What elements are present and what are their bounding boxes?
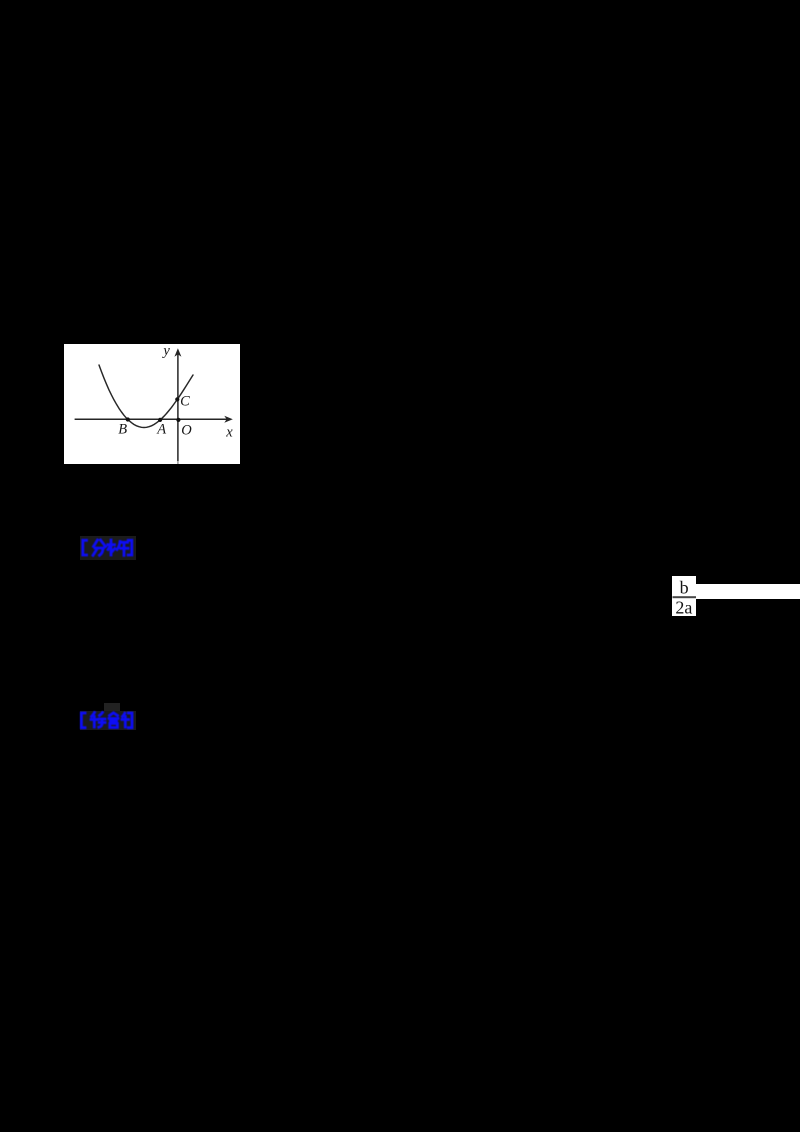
point B: [126, 417, 130, 421]
blue label 1: 【分析】 (drawn as vector strokes): [80, 536, 136, 560]
inline formula image: fraction b/2a on white: [672, 576, 696, 616]
svg-text:y: y: [161, 344, 170, 359]
blue label 2: 【解答】 (drawn as vector strokes): [104, 703, 120, 712]
svg-text:A: A: [156, 422, 166, 438]
svg-text:O: O: [181, 423, 192, 439]
svg-text:x: x: [225, 424, 233, 440]
svg-text:C: C: [180, 394, 190, 410]
point A: [158, 418, 162, 422]
parabola curve: [99, 365, 193, 428]
point C: [175, 397, 179, 401]
svg-text:2a: 2a: [675, 598, 692, 617]
fraction bar: [673, 596, 697, 598]
x-axis: [75, 416, 233, 423]
svg-text:b: b: [680, 578, 689, 598]
axis labels: [118, 343, 233, 441]
y-axis: [174, 348, 181, 464]
white strip continuation of formula line: [696, 584, 800, 599]
figure: parabola graph image box: [64, 344, 240, 464]
svg-text:B: B: [118, 422, 127, 438]
point O dot: [176, 418, 180, 422]
